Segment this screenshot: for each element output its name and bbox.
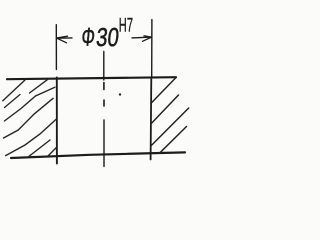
centerline dot 2 (103, 100, 105, 106)
hatch left 3 (30, 79, 49, 93)
svg-text:Φ: Φ (80, 22, 96, 51)
right arrowhead (143, 36, 152, 42)
centerline dot 1 (103, 83, 105, 90)
hatch right 4 (160, 127, 187, 154)
left arrowhead (57, 36, 68, 43)
hatch right 1 (151, 78, 176, 104)
dimension line left segment (57, 37, 73, 39)
svg-text:30: 30 (95, 23, 121, 52)
hatch left 7 (28, 140, 51, 158)
centerline dash 1 (103, 52, 105, 81)
svg-text:H7: H7 (119, 16, 133, 37)
hatch left 2 (3, 80, 25, 101)
hatch left 6 (6, 119, 57, 156)
hatch left 8 (47, 148, 56, 158)
hatch right 3 (151, 108, 189, 146)
extension line left (55, 25, 57, 70)
hatch left 5 (4, 98, 54, 138)
hatch left 4 (4, 87, 55, 121)
speck dot (119, 93, 121, 95)
hole left edge (56, 78, 58, 164)
top edge of part (7, 77, 176, 79)
hole right edge (150, 78, 153, 160)
bottom edge of part (11, 152, 185, 158)
extension line right (151, 20, 153, 77)
dimension line right segment (132, 36, 152, 39)
hatch left 3b (5, 95, 21, 108)
centerline dash 2 (103, 120, 105, 167)
hatch right 2 (151, 95, 179, 124)
